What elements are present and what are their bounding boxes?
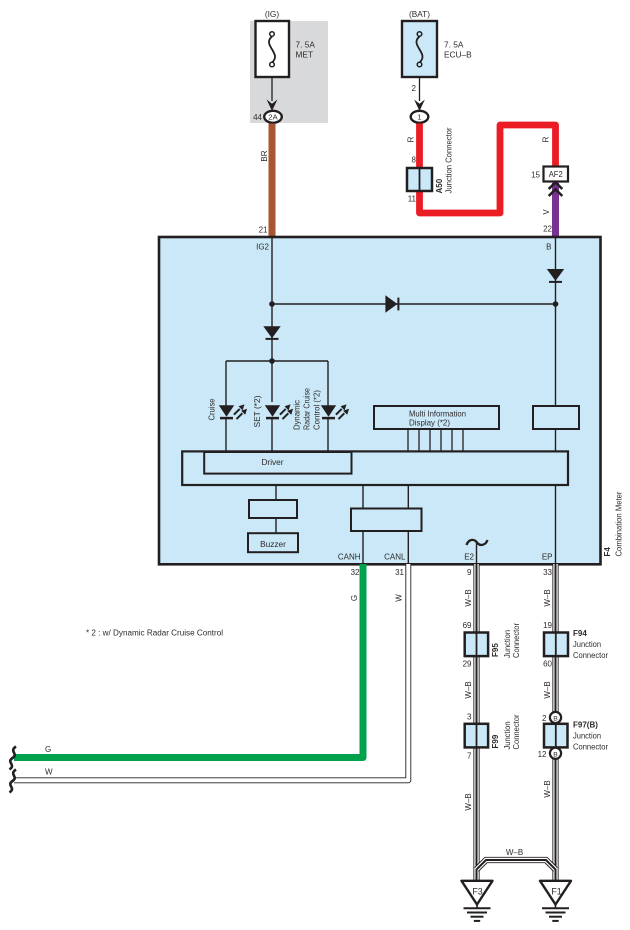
junction connector F95 bbox=[465, 633, 488, 657]
wire color label R (left run) bbox=[407, 136, 416, 142]
buzzer box bbox=[248, 533, 298, 552]
MID drop wires bbox=[408, 429, 463, 452]
wire E2 stub bbox=[476, 541, 478, 564]
svg-text:Connector: Connector bbox=[512, 623, 521, 658]
wire LED branch 3 bbox=[327, 361, 329, 406]
svg-text:9: 9 bbox=[467, 568, 472, 577]
wire CAN box to CANL bbox=[407, 531, 409, 564]
svg-text:Control (*2): Control (*2) bbox=[313, 390, 322, 430]
svg-text:F94: F94 bbox=[573, 629, 587, 638]
LED indicator Dynamic Radar Cruise Control bbox=[321, 404, 349, 419]
svg-text:BR: BR bbox=[260, 150, 269, 161]
wire W-B E2 to ground bbox=[473, 564, 479, 881]
ground F3 bbox=[462, 881, 493, 921]
svg-text:(BAT): (BAT) bbox=[409, 9, 430, 19]
svg-text:7. 5A: 7. 5A bbox=[296, 40, 316, 50]
wire B column bbox=[555, 238, 557, 406]
svg-text:R: R bbox=[542, 136, 551, 142]
svg-text:EP: EP bbox=[542, 553, 553, 562]
label W-B EP middle bbox=[543, 681, 552, 698]
connector oval 2A bbox=[264, 111, 282, 123]
svg-text:69: 69 bbox=[463, 621, 472, 630]
svg-text:Display (*2): Display (*2) bbox=[409, 418, 450, 428]
label A50 Junction Connector bbox=[445, 127, 454, 193]
label Combination Meter bbox=[615, 491, 624, 556]
wire B branch box to driver bbox=[555, 429, 557, 452]
svg-text:W–B: W–B bbox=[543, 681, 552, 698]
connector AF2 bbox=[544, 167, 569, 182]
label W-B EP lower bbox=[543, 780, 552, 797]
svg-text:* 2 : w/ Dynamic Radar Cruise: * 2 : w/ Dynamic Radar Cruise Control bbox=[86, 629, 223, 638]
svg-text:F3: F3 bbox=[472, 887, 482, 897]
svg-text:Dynamic: Dynamic bbox=[293, 400, 302, 430]
continuation squiggle W bbox=[10, 770, 17, 793]
connector circle B upper bbox=[550, 712, 561, 723]
wire fuse MET to connector bbox=[271, 77, 273, 101]
svg-text:12: 12 bbox=[538, 750, 547, 759]
svg-text:ECU–B: ECU–B bbox=[444, 50, 472, 60]
svg-text:W–B: W–B bbox=[464, 681, 473, 698]
svg-text:2: 2 bbox=[412, 84, 417, 93]
svg-text:22: 22 bbox=[543, 225, 552, 234]
svg-text:7. 5A: 7. 5A bbox=[444, 40, 464, 50]
connector circle B lower bbox=[550, 748, 561, 759]
wire color label W (vertical) bbox=[395, 594, 404, 602]
svg-text:Combination Meter: Combination Meter bbox=[615, 491, 624, 556]
svg-text:2A: 2A bbox=[268, 112, 277, 121]
label W-B E2 upper bbox=[464, 589, 473, 606]
Multi Information Display box bbox=[374, 406, 499, 429]
driver assembly box bbox=[182, 451, 568, 485]
svg-text:21: 21 bbox=[259, 226, 268, 235]
svg-text:CANH: CANH bbox=[338, 553, 361, 562]
svg-text:32: 32 bbox=[351, 568, 360, 577]
svg-text:Radar Cruise: Radar Cruise bbox=[303, 388, 312, 430]
svg-text:3: 3 bbox=[467, 713, 472, 722]
junction connector F94 bbox=[544, 633, 568, 657]
ground F1 bbox=[540, 881, 571, 921]
svg-text:G: G bbox=[350, 595, 359, 601]
svg-text:Buzzer: Buzzer bbox=[260, 539, 286, 549]
label F95 Junction Connector bbox=[503, 630, 512, 658]
wire LED2 to driver bbox=[271, 419, 273, 452]
driver box bbox=[204, 452, 351, 474]
wire color label V bbox=[542, 209, 551, 215]
svg-text:Junction: Junction bbox=[573, 732, 601, 741]
svg-text:2: 2 bbox=[542, 714, 547, 723]
node junction B x cross link bbox=[553, 301, 559, 307]
svg-text:19: 19 bbox=[543, 621, 552, 630]
wire LED rail bbox=[226, 360, 328, 362]
LED indicator Cruise bbox=[219, 404, 247, 419]
wire W (white) CANL bbox=[14, 564, 408, 780]
svg-text:44: 44 bbox=[253, 113, 262, 122]
wire R (red) BAT to AF2 bbox=[420, 124, 556, 214]
diode D1 on B column bbox=[547, 269, 564, 282]
junction connector F97(B) bbox=[544, 724, 568, 748]
svg-text:MET: MET bbox=[296, 50, 314, 60]
wire IG2 column bbox=[271, 238, 273, 402]
svg-text:SET (*2): SET (*2) bbox=[253, 395, 262, 427]
label SET (*2) bbox=[253, 395, 262, 427]
svg-text:W–B: W–B bbox=[464, 589, 473, 606]
B branch box bbox=[533, 406, 579, 429]
svg-text:F97(B): F97(B) bbox=[573, 721, 598, 730]
svg-text:Connector: Connector bbox=[573, 651, 608, 660]
wire BR (brown) fuse to meter IG2 bbox=[269, 124, 276, 239]
label W-B E2 middle bbox=[464, 681, 473, 698]
connector arrow (IG) bbox=[267, 100, 278, 112]
svg-text:B: B bbox=[553, 751, 558, 758]
svg-text:B: B bbox=[546, 243, 551, 252]
label Dynamic Radar Cruise Control (*2) bbox=[293, 400, 302, 430]
svg-text:Junction Connector: Junction Connector bbox=[445, 127, 454, 193]
svg-text:Junction: Junction bbox=[503, 722, 512, 750]
wire V (violet) AF2 to meter B bbox=[552, 182, 559, 239]
break squiggle above E2 bbox=[467, 540, 488, 545]
svg-text:Junction: Junction bbox=[503, 630, 512, 658]
svg-text:F1: F1 bbox=[551, 887, 561, 897]
wire color label BR bbox=[260, 150, 269, 161]
wire CAN box to CANH bbox=[362, 531, 364, 564]
label A50 bbox=[435, 178, 444, 193]
wire color label R (right run) bbox=[542, 136, 551, 142]
svg-text:29: 29 bbox=[463, 660, 472, 669]
label F95 bbox=[491, 643, 500, 657]
svg-text:W: W bbox=[395, 594, 404, 602]
svg-text:A50: A50 bbox=[435, 178, 444, 193]
node junction LED rail bbox=[269, 358, 275, 364]
svg-text:33: 33 bbox=[543, 568, 552, 577]
svg-text:W–B: W–B bbox=[543, 589, 552, 606]
wire driver to CAN box right bbox=[407, 485, 409, 509]
wire W-B EP to ground bbox=[552, 564, 558, 881]
svg-text:F4: F4 bbox=[603, 547, 612, 557]
LED indicator SET bbox=[265, 404, 293, 419]
svg-text:F99: F99 bbox=[491, 734, 500, 748]
svg-text:Connector: Connector bbox=[573, 743, 608, 752]
CAN box bbox=[351, 509, 422, 532]
label F97(B) Junction Connector bbox=[573, 721, 608, 752]
svg-text:CANL: CANL bbox=[384, 553, 406, 562]
chevron pair below AF2 bbox=[549, 182, 563, 189]
svg-text:F95: F95 bbox=[491, 643, 500, 657]
junction connector A50 bbox=[407, 168, 432, 191]
continuation squiggle G bbox=[10, 747, 17, 770]
wire LED3 to driver bbox=[327, 419, 329, 452]
svg-text:W–B: W–B bbox=[543, 780, 552, 797]
svg-text:Connector: Connector bbox=[512, 714, 521, 749]
label Cruise bbox=[208, 398, 217, 421]
svg-text:(IG): (IG) bbox=[265, 9, 280, 19]
fuse ECU-B (BAT) bbox=[402, 21, 437, 77]
svg-text:W: W bbox=[45, 768, 53, 777]
node junction IG2 x cross link bbox=[269, 301, 275, 307]
svg-text:Junction: Junction bbox=[573, 640, 601, 649]
svg-text:11: 11 bbox=[408, 195, 417, 204]
svg-text:AF2: AF2 bbox=[549, 169, 563, 179]
svg-text:8: 8 bbox=[412, 156, 417, 165]
svg-text:W–B: W–B bbox=[506, 848, 523, 857]
connector oval 1 bbox=[411, 111, 429, 123]
label F94 Junction Connector bbox=[573, 629, 608, 660]
wire driver to sub box bbox=[275, 485, 277, 500]
svg-text:G: G bbox=[45, 745, 51, 754]
wire EP column inside meter bbox=[555, 485, 557, 564]
combination meter body F4 bbox=[159, 237, 601, 564]
svg-text:E2: E2 bbox=[464, 553, 474, 562]
wire sub box to buzzer bbox=[275, 518, 277, 535]
wire LED1 to driver bbox=[225, 419, 227, 452]
label F4 bbox=[603, 547, 612, 557]
wire fuse ECU-B to connector bbox=[419, 77, 421, 101]
svg-text:1: 1 bbox=[417, 112, 421, 121]
wire driver to CAN box left bbox=[362, 485, 364, 509]
fuse MET (IG) bbox=[256, 21, 290, 77]
wire cross link at y304 bbox=[272, 303, 556, 305]
svg-text:R: R bbox=[407, 136, 416, 142]
svg-text:W–B: W–B bbox=[464, 793, 473, 810]
junction connector F99 bbox=[465, 724, 488, 748]
svg-text:15: 15 bbox=[531, 171, 540, 180]
label F99 bbox=[491, 734, 500, 748]
svg-text:B: B bbox=[553, 716, 558, 723]
svg-text:Cruise: Cruise bbox=[208, 398, 217, 421]
diode D2 on cross link (pointing right) bbox=[385, 295, 398, 313]
wire color label G (vertical) bbox=[350, 595, 359, 601]
sub box bbox=[249, 500, 297, 518]
label W-B EP upper bbox=[543, 589, 552, 606]
wire LED branch 1 bbox=[225, 361, 227, 406]
svg-text:V: V bbox=[542, 209, 551, 215]
label F99 Junction Connector bbox=[503, 722, 512, 750]
shaded IG fuse region bbox=[250, 21, 328, 123]
svg-text:Driver: Driver bbox=[261, 457, 283, 467]
svg-text:7: 7 bbox=[467, 752, 472, 761]
wire G (green) CANH bbox=[14, 564, 363, 758]
svg-text:IG2: IG2 bbox=[256, 243, 269, 252]
svg-text:60: 60 bbox=[543, 660, 552, 669]
connector arrow (BAT) bbox=[414, 100, 425, 112]
svg-text:31: 31 bbox=[395, 568, 404, 577]
diode D3 on IG2 column bbox=[263, 326, 280, 339]
wire W-B ground link bbox=[477, 860, 556, 870]
label W-B E2 lower bbox=[464, 793, 473, 810]
